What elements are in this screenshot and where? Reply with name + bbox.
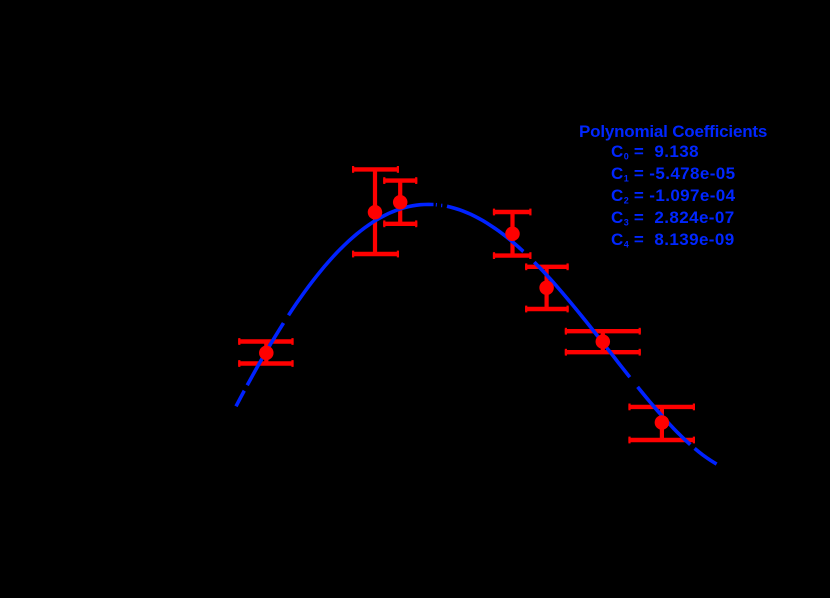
marker for data point P4: [505, 227, 520, 242]
error bars for data point P1: [238, 338, 293, 367]
legend C0: [611, 142, 699, 162]
marker for data point P6: [596, 334, 611, 349]
marker for data point P1: [259, 346, 274, 361]
legend C1: [611, 164, 736, 184]
legend C3: [611, 208, 735, 228]
error bars for data point P7: [628, 404, 695, 444]
error bars for data point P6: [565, 328, 641, 356]
error bars for data point P4: [493, 209, 532, 259]
fitted 4th-degree polynomial curve (blue, long dashes): [236, 204, 717, 464]
marker for data point P7: [655, 415, 670, 430]
error bars for data point P2: [352, 166, 399, 257]
legend C4: [611, 230, 735, 250]
marker for data point P2: [368, 205, 383, 220]
error bars for data point P5: [525, 263, 569, 312]
legend title: [579, 122, 767, 142]
marker for data point P5: [539, 281, 554, 296]
legend C2: [611, 186, 736, 206]
error bars for data point P3: [383, 177, 417, 227]
marker for data point P3: [393, 195, 408, 210]
